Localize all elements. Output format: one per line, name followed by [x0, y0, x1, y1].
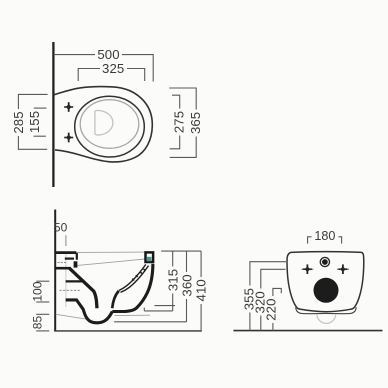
inlet dot: [322, 259, 328, 265]
fixing hole star (top view upper): [64, 102, 73, 112]
dimension 315: [144, 251, 175, 311]
dimension 360: [114, 251, 186, 322]
inlet circle: [320, 257, 329, 266]
projection line upper: [78, 251, 146, 253]
floor (front view): [233, 330, 382, 332]
svg-text:365: 365: [188, 112, 203, 134]
dimension 365: [169, 88, 196, 157]
projection line under sump right: [115, 314, 151, 316]
dimension 180: [308, 237, 342, 244]
wall (top view): [52, 42, 54, 187]
body outline (front view): [287, 252, 364, 312]
svg-text:50: 50: [54, 221, 68, 235]
back diagonal wall of bowl: [70, 268, 98, 308]
mounting block bottom: [55, 267, 72, 270]
floor (side view): [54, 330, 202, 332]
svg-text:180: 180: [314, 229, 335, 243]
dimension 325: [78, 69, 145, 82]
dimension 220: [273, 288, 281, 330]
dimension 500: [55, 55, 153, 82]
fixing star (front left): [303, 264, 312, 274]
rim outer ellipse (top view): [75, 96, 145, 157]
rim notches: [132, 269, 145, 281]
mounting block lug: [74, 261, 78, 267]
svg-text:410: 410: [194, 279, 209, 301]
projection line lower: [78, 259, 146, 265]
dimension 100: [36, 281, 49, 302]
hatch dashes in block: [58, 262, 67, 264]
svg-text:500: 500: [97, 47, 119, 62]
svg-text:85: 85: [30, 316, 44, 330]
water outline D-shape (top view): [95, 110, 113, 135]
projection line bowl bottom: [56, 314, 89, 319]
toilet body outline (top view): [54, 86, 153, 161]
inner wall descender: [112, 291, 119, 308]
outlet hole: [314, 278, 339, 303]
inner shell band lower: [121, 266, 149, 293]
svg-text:155: 155: [27, 111, 42, 133]
dimension 320: [261, 269, 286, 330]
dimension 355: [250, 262, 286, 331]
svg-text:220: 220: [264, 298, 279, 320]
mounting flange top: [55, 251, 77, 254]
bowl lower profile and sump: [66, 300, 113, 323]
dimension 85: [36, 314, 49, 331]
outer shell right curve: [112, 264, 153, 312]
mounting block inner step: [65, 258, 74, 260]
rim inner ellipse (top view): [80, 100, 139, 149]
flush channel top: [66, 280, 84, 282]
mounting block right edge: [76, 253, 78, 260]
svg-text:315: 315: [166, 269, 181, 291]
dimension 155: [34, 108, 47, 136]
inner shell band upper: [119, 264, 146, 290]
dimension 410: [200, 251, 202, 331]
dimension 285: [18, 94, 47, 149]
fixing star (front right): [338, 264, 347, 274]
skirt: [296, 307, 357, 313]
svg-text:275: 275: [172, 111, 187, 133]
dimension 275: [170, 95, 180, 149]
trap outline (front view): [317, 314, 336, 323]
right dims top arm: [161, 250, 201, 252]
svg-text:100: 100: [30, 281, 44, 301]
rim box: [146, 252, 154, 262]
teal insert: [147, 257, 151, 262]
svg-text:285: 285: [11, 111, 26, 133]
fixing hole star (top view lower): [64, 133, 73, 143]
svg-text:360: 360: [179, 274, 194, 296]
50 extension line: [65, 235, 67, 246]
wall (side view): [54, 210, 56, 332]
svg-text:325: 325: [102, 61, 124, 76]
hatch dashes mid: [60, 289, 81, 291]
